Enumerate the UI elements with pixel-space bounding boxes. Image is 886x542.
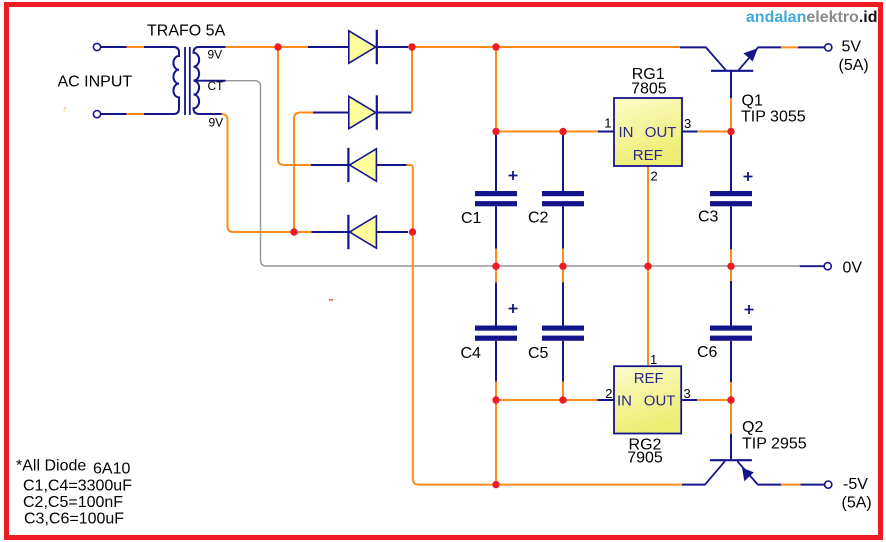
transformer T1 TRAFO 5A <box>101 23 226 130</box>
svg-text:1: 1 <box>604 116 611 131</box>
svg-text:2: 2 <box>651 169 658 184</box>
transformer secondary winding top half <box>194 47 226 81</box>
svg-text:C1: C1 <box>461 210 482 227</box>
svg-text:1: 1 <box>650 352 657 367</box>
svg-text:REF: REF <box>633 147 663 164</box>
junction node +raw at C1 <box>492 43 499 50</box>
wire D3 anode down to -raw rail <box>377 164 407 166</box>
wire D1 cathode to +raw node <box>378 46 409 48</box>
wire RG1 REF to 0V and to RG2 REF <box>647 166 649 266</box>
svg-text:andalanelektro.id: andalanelektro.id <box>746 9 878 26</box>
svg-text:Q1: Q1 <box>742 93 763 110</box>
AC input terminal top <box>93 43 100 50</box>
diode D3 <box>348 148 376 182</box>
capacitor C6 <box>697 305 754 361</box>
regulator RG2 7905 <box>605 352 690 467</box>
svg-text:9V: 9V <box>208 48 223 62</box>
transformer core <box>184 47 186 115</box>
svg-text:CT: CT <box>208 79 225 93</box>
svg-text:AC INPUT: AC INPUT <box>58 74 133 91</box>
svg-text:Q2: Q2 <box>742 419 763 436</box>
regulator RG1 7805 <box>604 66 691 184</box>
wire AC neutral orange segment bottom <box>127 113 145 115</box>
svg-text:IN: IN <box>619 124 634 141</box>
svg-text:C5: C5 <box>528 345 549 362</box>
junction node lower 9V tap <box>290 228 297 235</box>
capacitor C1 <box>461 171 518 227</box>
wire CT to 0V rail (gray) <box>226 81 800 266</box>
output wire +5V <box>758 46 825 48</box>
svg-text:0V: 0V <box>843 260 863 277</box>
svg-text:6A10: 6A10 <box>93 461 130 478</box>
stray mark orange specks <box>64 107 66 109</box>
wire +raw rail to Q1 collector <box>408 46 680 48</box>
wire D2 cathode up to +raw node <box>411 47 413 112</box>
wire D2 anode from lower 9V <box>294 113 313 232</box>
wire +raw down to RG1 IN row <box>495 47 497 132</box>
wire node A down to D3 cathode <box>278 47 311 165</box>
wire RG1 OUT to Q1 base node <box>682 131 697 133</box>
wire 0V rail end navy <box>800 265 825 267</box>
junction node RG2 IN C5 <box>559 396 566 403</box>
svg-text:TIP 3055: TIP 3055 <box>741 109 806 126</box>
svg-text:*All Diode: *All Diode <box>16 458 86 475</box>
AC input terminal bottom <box>93 111 100 118</box>
wire -raw rail to Q2 collector <box>682 484 706 486</box>
svg-text:OUT: OUT <box>644 392 676 409</box>
diode D1 <box>349 30 377 64</box>
junction node RG1 IN C2 <box>559 128 566 135</box>
junction node 0V C2 <box>559 263 566 270</box>
svg-text:9V: 9V <box>209 116 224 130</box>
wire Q2 base <box>730 400 732 434</box>
wire RG2 IN row <box>496 399 598 401</box>
wire 9V bottom tap down to lower bridge rail <box>222 114 312 232</box>
transistor Q2 TIP 2955 <box>705 419 807 484</box>
capacitor C2 <box>528 191 584 227</box>
svg-text:TRAFO 5A: TRAFO 5A <box>147 23 226 40</box>
junction node RG1 OUT Q1 base <box>727 128 734 135</box>
svg-text:C2,C5=100nF: C2,C5=100nF <box>23 494 123 511</box>
svg-text:C6: C6 <box>697 344 718 361</box>
svg-text:(5A): (5A) <box>842 495 872 512</box>
junction node RG1 IN C1 <box>492 128 499 135</box>
svg-text:C2: C2 <box>528 210 549 227</box>
svg-text:-5V: -5V <box>843 476 868 493</box>
svg-text:3: 3 <box>684 386 691 401</box>
terminal 0V <box>824 263 831 270</box>
capacitor C3 <box>698 172 753 226</box>
svg-text:OUT: OUT <box>645 124 677 141</box>
svg-text:C4: C4 <box>461 345 482 362</box>
svg-text:5V: 5V <box>842 39 862 56</box>
junction node 0V C1 <box>492 263 499 270</box>
terminal -5V <box>825 481 832 488</box>
transistor Q1 TIP 3055 <box>706 47 806 125</box>
wire 9V top tap to D1 anode <box>226 46 308 48</box>
wire RG1 IN row <box>496 131 598 133</box>
svg-text:3: 3 <box>684 116 691 131</box>
wire C1 column <box>495 132 497 192</box>
junction node RG2 IN C4 <box>492 396 499 403</box>
junction node 0V REF <box>644 263 651 270</box>
junction node top 9V tap <box>274 43 281 50</box>
junction node -raw at C4 <box>492 481 499 488</box>
wire x496 link to -raw rail <box>495 400 497 485</box>
diode D2 <box>349 95 377 129</box>
diode D4 <box>348 215 376 249</box>
svg-text:IN: IN <box>617 392 632 409</box>
svg-text:C3: C3 <box>698 209 719 226</box>
svg-text:7805: 7805 <box>631 81 667 98</box>
output wire -5V <box>757 484 824 486</box>
junction node D1/D2 cathodes <box>408 43 415 50</box>
capacitor C4 <box>461 304 518 362</box>
svg-text:7905: 7905 <box>627 450 663 467</box>
junction node 0V C3 <box>727 263 734 270</box>
stray mark red dash <box>329 299 333 301</box>
wire RG2 OUT to Q2 base node <box>681 399 697 401</box>
wire C2 column <box>562 132 564 192</box>
junction node RG2 OUT Q2 base <box>727 396 734 403</box>
transformer secondary winding bottom half <box>194 81 223 114</box>
capacitor C5 <box>528 326 584 363</box>
svg-text:2: 2 <box>605 386 612 401</box>
transformer primary winding <box>101 47 180 114</box>
wire AC live orange segment top <box>127 46 145 48</box>
svg-text:REF: REF <box>634 370 664 387</box>
terminal +5V <box>825 44 832 51</box>
wire C3 column / Q1 base <box>730 71 732 98</box>
svg-text:TIP 2955: TIP 2955 <box>742 436 807 453</box>
wire D4 anode to -raw node <box>377 231 408 233</box>
svg-text:C1,C4=3300uF: C1,C4=3300uF <box>23 478 132 495</box>
junction node D3/D4 anodes <box>409 228 416 235</box>
svg-text:(5A): (5A) <box>839 57 869 74</box>
svg-text:C3,C6=100uF: C3,C6=100uF <box>24 511 124 528</box>
